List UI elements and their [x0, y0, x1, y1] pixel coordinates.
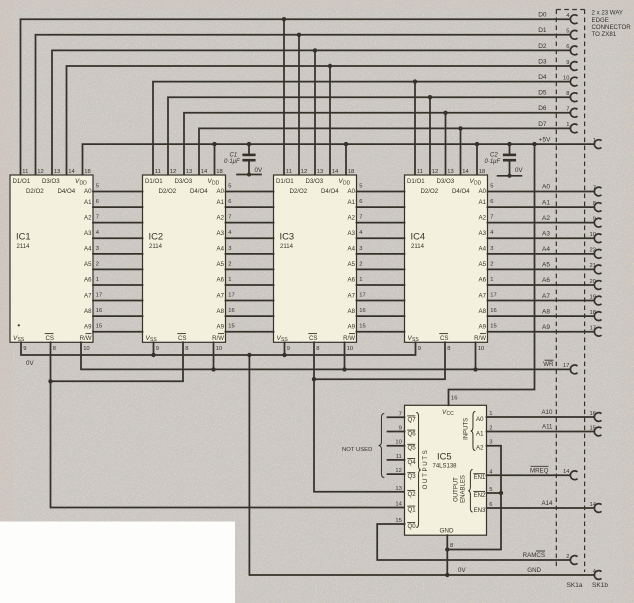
svg-text:A1: A1	[84, 199, 92, 206]
svg-text:17: 17	[228, 293, 234, 299]
svg-text:Q4: Q4	[408, 459, 417, 466]
svg-text:6: 6	[490, 199, 493, 205]
svg-text:SK1a: SK1a	[567, 582, 583, 589]
svg-text:A4: A4	[217, 246, 225, 253]
svg-text:2114: 2114	[280, 244, 294, 250]
svg-text:7: 7	[399, 411, 402, 417]
IC4 top pin numbers 11 12 13 14 18	[417, 169, 485, 175]
svg-text:6: 6	[228, 199, 231, 205]
wire D2 bus	[52, 48, 570, 175]
svg-text:6: 6	[359, 199, 362, 205]
svg-text:A3: A3	[217, 230, 225, 237]
svg-text:14: 14	[395, 502, 402, 508]
svg-text:A0: A0	[542, 184, 550, 191]
svg-text:A1: A1	[217, 199, 225, 206]
svg-text:11: 11	[396, 454, 402, 460]
svg-text:13: 13	[186, 169, 192, 175]
connector SK1b pin 17 A9	[590, 326, 602, 337]
svg-text:D1/O1: D1/O1	[145, 178, 163, 185]
svg-text:DD: DD	[474, 181, 482, 187]
svg-text:3: 3	[359, 246, 362, 252]
svg-text:D5: D5	[538, 90, 547, 97]
svg-text:CONNECTOR: CONNECTOR	[592, 24, 632, 31]
svg-text:9: 9	[23, 346, 26, 352]
svg-text:A2: A2	[479, 214, 487, 221]
connector SK1b pin 9 A2	[593, 216, 602, 227]
svg-text:D1: D1	[538, 27, 547, 34]
svg-text:9: 9	[566, 60, 569, 66]
svg-text:CS: CS	[178, 335, 186, 342]
svg-text:A6: A6	[479, 277, 487, 284]
svg-text:D2/O2: D2/O2	[26, 188, 44, 195]
svg-text:A4: A4	[542, 246, 550, 253]
IC2 address pin numbers 5 6 7 4 3 2 1 17 16 15	[228, 184, 234, 330]
svg-text:A2: A2	[84, 214, 92, 221]
connector SK1a pin 10 D4	[563, 75, 577, 86]
connector SK1a pin 2 RAMCS	[566, 554, 577, 565]
wire D7 bus	[199, 126, 570, 175]
svg-text:A9: A9	[84, 323, 92, 330]
svg-text:A8: A8	[542, 308, 550, 315]
wire EN1 to MREQ	[487, 474, 571, 476]
wire D1 bus	[36, 33, 571, 175]
svg-text:16: 16	[228, 308, 234, 314]
svg-text:18: 18	[479, 169, 485, 175]
svg-text:DD: DD	[80, 181, 88, 187]
svg-text:12: 12	[395, 468, 401, 474]
svg-text:A5: A5	[479, 261, 487, 268]
svg-text:8: 8	[450, 543, 453, 549]
svg-text:14: 14	[332, 169, 339, 175]
svg-text:D4/O4: D4/O4	[452, 188, 470, 195]
wire address bus A0-A9 segment 2	[226, 192, 274, 332]
IC3 bottom pin numbers 9 8 10	[287, 346, 353, 352]
svg-text:A0: A0	[217, 188, 225, 195]
connector SK1b pin 14 A14	[590, 502, 602, 513]
svg-text:D3: D3	[538, 58, 547, 65]
svg-text:15: 15	[395, 518, 401, 524]
wire 0V drop to bottom rail	[249, 355, 594, 577]
svg-text:7: 7	[490, 215, 493, 221]
svg-text:17: 17	[96, 293, 102, 299]
decoder IC5 74LS138	[405, 405, 487, 535]
svg-text:16: 16	[451, 395, 457, 401]
svg-text:IC3: IC3	[280, 231, 295, 242]
svg-text:A5: A5	[84, 261, 92, 268]
svg-text:5: 5	[566, 29, 569, 35]
svg-text:2: 2	[490, 261, 493, 267]
svg-text:18: 18	[84, 169, 90, 175]
svg-text:1: 1	[566, 122, 569, 128]
svg-text:15: 15	[359, 324, 365, 330]
RAM chip IC4 2114	[405, 175, 488, 343]
wire IC5 GND pin 8 to 0V	[446, 535, 448, 575]
svg-text:6: 6	[566, 44, 569, 50]
svg-text:D3/O3: D3/O3	[42, 178, 60, 185]
svg-text:11: 11	[155, 169, 161, 175]
svg-text:D4: D4	[538, 74, 547, 81]
svg-text:15: 15	[590, 425, 596, 431]
svg-text:8: 8	[316, 346, 319, 352]
wire D4 bus	[153, 79, 570, 175]
svg-text:16: 16	[490, 308, 496, 314]
svg-text:RAMCS: RAMCS	[523, 552, 545, 559]
svg-text:D4/O4: D4/O4	[321, 188, 339, 195]
svg-text:DD: DD	[343, 181, 351, 187]
wire address bus A0-A9 segment 3	[357, 192, 405, 332]
svg-text:10: 10	[347, 346, 353, 352]
svg-text:9: 9	[593, 216, 596, 222]
wire D3 bus	[67, 64, 571, 175]
svg-text:8: 8	[566, 91, 569, 97]
svg-text:D2/O2: D2/O2	[159, 188, 177, 195]
svg-text:7: 7	[566, 107, 569, 113]
svg-text:15: 15	[96, 324, 102, 330]
svg-text:A4: A4	[348, 246, 356, 253]
svg-text:Q1: Q1	[408, 507, 417, 514]
svg-text:A3: A3	[479, 230, 487, 237]
IC5 left pin numbers 7 9 10 11 12 13 14 15	[395, 411, 402, 524]
connector SK1b pin 22 A4	[590, 248, 602, 259]
connector SK1a pin 5 D1	[566, 29, 577, 40]
svg-text:EN1: EN1	[474, 474, 486, 481]
svg-text:IC2: IC2	[149, 231, 164, 242]
svg-text:INPUTS: INPUTS	[464, 418, 470, 440]
connector SK1a pin 1 D7	[566, 122, 577, 133]
svg-text:22: 22	[590, 248, 596, 254]
svg-text:A0: A0	[476, 416, 484, 423]
svg-text:A8: A8	[217, 308, 225, 315]
svg-text:8: 8	[185, 346, 188, 352]
svg-text:NOT USED: NOT USED	[342, 447, 372, 453]
svg-text:6: 6	[489, 502, 492, 508]
svg-text:3: 3	[490, 246, 493, 252]
svg-text:17: 17	[359, 293, 365, 299]
svg-text:D7: D7	[538, 121, 547, 128]
connector SK1b pin 16 A10	[590, 411, 602, 422]
svg-text:5: 5	[489, 487, 492, 493]
svg-text:A1: A1	[348, 199, 356, 206]
wire D6 bus	[184, 111, 570, 175]
svg-text:8: 8	[53, 346, 56, 352]
connector SK1b pin 1 +5V	[593, 138, 602, 149]
svg-text:A2: A2	[542, 215, 550, 222]
svg-text:A3: A3	[84, 230, 92, 237]
svg-text:A1: A1	[479, 199, 487, 206]
svg-text:D3/O3: D3/O3	[306, 178, 324, 185]
svg-text:A5: A5	[542, 262, 550, 269]
svg-text:9: 9	[418, 346, 421, 352]
svg-text:2: 2	[228, 261, 231, 267]
svg-text:D1/O1: D1/O1	[276, 178, 294, 185]
svg-text:12: 12	[170, 169, 176, 175]
connector SK1a pin 14 MREQ	[563, 469, 577, 480]
connector SK1b pin 19 A7	[590, 294, 602, 305]
IC2 bottom pin numbers 9 8 10	[156, 346, 222, 352]
RAM chip IC1 2114	[10, 175, 93, 343]
svg-text:SK1b: SK1b	[592, 582, 608, 589]
svg-text:A9: A9	[217, 323, 225, 330]
edge connector dashed outline SK1a	[556, 10, 584, 573]
svg-text:0V: 0V	[458, 567, 466, 574]
svg-text:A9: A9	[542, 324, 550, 331]
svg-text:14: 14	[563, 469, 570, 475]
svg-text:A7: A7	[479, 292, 487, 299]
svg-text:2114: 2114	[17, 244, 31, 250]
svg-text:8: 8	[447, 346, 450, 352]
node +5V rail	[83, 142, 595, 175]
svg-text:A7: A7	[84, 292, 92, 299]
svg-text:EN3: EN3	[474, 507, 486, 514]
connector SK1b pin 21 A5	[590, 263, 602, 274]
svg-text:12: 12	[301, 169, 307, 175]
svg-text:13: 13	[317, 169, 323, 175]
capacitor C2 0.1uF	[485, 144, 524, 178]
svg-text:1: 1	[359, 277, 362, 283]
wire IC5 A0 input to A10	[487, 416, 595, 418]
svg-text:17: 17	[490, 293, 496, 299]
svg-text:0V: 0V	[255, 167, 263, 174]
svg-text:1: 1	[228, 277, 231, 283]
svg-text:2114: 2114	[149, 244, 163, 250]
svg-text:D1/O1: D1/O1	[13, 178, 31, 185]
wire CS net IC1+IC2 to decoder Q1	[48, 342, 404, 507]
node 0V rail under RAMs	[21, 342, 416, 357]
svg-text:20: 20	[590, 279, 596, 285]
NOT USED label and brace	[342, 414, 384, 478]
wire IC5 A1 input to A11	[487, 431, 595, 433]
svg-text:11: 11	[286, 169, 292, 175]
svg-text:1: 1	[490, 277, 493, 283]
svg-text:9: 9	[287, 346, 290, 352]
svg-text:A0: A0	[479, 188, 487, 195]
svg-text:2: 2	[566, 554, 569, 560]
svg-text:15: 15	[228, 324, 234, 330]
svg-text:12: 12	[37, 169, 43, 175]
svg-text:5: 5	[359, 184, 362, 190]
wire VCC feed from +5V to IC5 pin 16	[449, 144, 535, 405]
svg-text:A0: A0	[84, 188, 92, 195]
capacitor C1 0.1uF	[224, 144, 263, 176]
svg-text:14: 14	[462, 169, 469, 175]
svg-text:13: 13	[447, 169, 453, 175]
svg-text:19: 19	[590, 294, 596, 300]
connector SK1a pin 4 D0	[566, 13, 577, 24]
artifact dot inside IC1	[18, 324, 20, 326]
IC3 address pin numbers 5 6 7 4 3 2 1 17 16 15	[359, 184, 365, 330]
svg-text:D6: D6	[538, 105, 547, 112]
svg-text:A9: A9	[479, 323, 487, 330]
svg-text:Q2: Q2	[408, 491, 417, 498]
connector SK1a pin 8 D5	[566, 91, 577, 102]
svg-text:3: 3	[96, 246, 99, 252]
svg-text:1: 1	[96, 277, 99, 283]
svg-text:D2/O2: D2/O2	[290, 188, 308, 195]
svg-text:Q3: Q3	[408, 473, 417, 480]
wire address bus A0-A9 to edge connector	[488, 192, 595, 332]
connector SK1b pin 7 A0	[593, 185, 602, 196]
svg-text:+5V: +5V	[539, 136, 551, 143]
svg-text:OUTPUT: OUTPUT	[454, 477, 460, 502]
svg-text:0V: 0V	[515, 167, 523, 174]
svg-text:5: 5	[490, 184, 493, 190]
svg-text:13: 13	[395, 486, 401, 492]
svg-text:10: 10	[563, 75, 569, 81]
svg-text:1: 1	[593, 138, 596, 144]
IC2 top pin numbers 11 12 13 14 18	[155, 169, 223, 175]
connector SK1a pin 17 WR	[563, 363, 577, 374]
svg-text:Q0: Q0	[408, 523, 417, 530]
svg-text:10: 10	[395, 440, 401, 446]
svg-text:3: 3	[489, 440, 492, 446]
svg-text:MREQ: MREQ	[530, 467, 549, 474]
connector SK1a pin 7 D6	[566, 107, 577, 118]
svg-text:D1/O1: D1/O1	[407, 178, 425, 185]
svg-text:A7: A7	[217, 292, 225, 299]
connector SK1b pin 8 A1	[593, 201, 602, 212]
svg-text:IC5: IC5	[437, 451, 452, 462]
wire D0 bus	[21, 17, 571, 175]
MREQ net label	[530, 466, 549, 474]
svg-text:7: 7	[96, 215, 99, 221]
svg-text:R/W: R/W	[212, 335, 224, 342]
svg-text:A8: A8	[479, 308, 487, 315]
IC1 address pin numbers 5 6 7 4 3 2 1 17 16 15	[96, 184, 102, 330]
svg-text:A1: A1	[476, 430, 484, 437]
svg-text:TO ZX81: TO ZX81	[592, 31, 617, 38]
svg-text:GND: GND	[440, 527, 454, 534]
svg-text:6: 6	[96, 199, 99, 205]
svg-text:16: 16	[96, 308, 102, 314]
svg-text:Q6: Q6	[408, 431, 417, 438]
wire A2 and EN2 grounded	[445, 446, 503, 552]
svg-text:5: 5	[96, 184, 99, 190]
svg-text:C2: C2	[490, 153, 498, 159]
svg-text:12: 12	[432, 169, 438, 175]
svg-text:2: 2	[489, 426, 492, 432]
svg-text:Q5: Q5	[408, 445, 417, 452]
svg-text:15: 15	[490, 324, 496, 330]
svg-text:WR: WR	[543, 361, 554, 368]
svg-text:3: 3	[228, 246, 231, 252]
wire EN3 to A14	[487, 507, 595, 509]
svg-text:A0: A0	[348, 188, 356, 195]
svg-text:2: 2	[96, 261, 99, 267]
svg-text:CS: CS	[309, 335, 317, 342]
IC4 bottom pin numbers 9 8 10	[418, 346, 484, 352]
IC4 address pin numbers 5 6 7 4 3 2 1 17 16 15	[490, 184, 496, 330]
data net labels D0-D7	[538, 12, 547, 128]
svg-text:A7: A7	[348, 292, 356, 299]
svg-text:A1: A1	[542, 199, 550, 206]
svg-text:0V: 0V	[26, 360, 34, 367]
svg-text:10: 10	[216, 346, 222, 352]
svg-text:8: 8	[593, 201, 596, 207]
wire D5 bus	[168, 95, 570, 175]
svg-text:5: 5	[228, 184, 231, 190]
svg-text:11: 11	[417, 169, 423, 175]
connector SK1a pin 6 D2	[566, 44, 577, 55]
svg-text:CS: CS	[440, 335, 448, 342]
svg-text:74LS138: 74LS138	[433, 463, 458, 469]
svg-text:D3/O3: D3/O3	[437, 178, 455, 185]
svg-text:A6: A6	[217, 277, 225, 284]
svg-text:D0: D0	[538, 12, 547, 19]
svg-text:D2: D2	[538, 43, 547, 50]
svg-text:A14: A14	[541, 500, 553, 507]
svg-text:14: 14	[201, 169, 208, 175]
connector SK1a pin 9 D3	[566, 60, 577, 71]
svg-text:D2/O2: D2/O2	[421, 188, 439, 195]
svg-text:A6: A6	[84, 277, 92, 284]
connector SK1b pin 18 A8	[590, 310, 602, 321]
svg-text:CC: CC	[447, 411, 455, 417]
svg-text:A3: A3	[348, 230, 356, 237]
svg-text:7: 7	[593, 185, 596, 191]
IC5 unused output stubs pins 7 9 10 11 12	[388, 417, 405, 474]
svg-text:0·1μF: 0·1μF	[485, 159, 501, 165]
connector note text	[592, 10, 632, 39]
svg-text:A8: A8	[84, 308, 92, 315]
RAMCS net label	[523, 551, 545, 559]
address net labels A0-A9	[542, 184, 550, 331]
svg-text:10: 10	[478, 346, 484, 352]
scan cut white corner	[0, 522, 235, 603]
svg-text:18: 18	[348, 169, 354, 175]
svg-text:A5: A5	[217, 261, 225, 268]
svg-text:17: 17	[563, 363, 569, 369]
svg-text:10: 10	[590, 232, 596, 238]
wire address bus A0-A9 segment 1	[93, 192, 143, 332]
IC5 right pin numbers 1 2 3 4 5 6	[489, 411, 493, 508]
svg-text:13: 13	[54, 169, 60, 175]
svg-text:OUTPUTS: OUTPUTS	[422, 449, 429, 490]
svg-text:21: 21	[590, 263, 596, 269]
svg-text:A4: A4	[479, 246, 487, 253]
svg-text:A2: A2	[348, 214, 356, 221]
svg-text:A9: A9	[348, 323, 356, 330]
svg-text:R/W: R/W	[80, 335, 92, 342]
svg-text:11: 11	[22, 169, 28, 175]
IC1 bottom pin numbers 9 8 10	[23, 346, 89, 352]
connector SK1b pin 20 A6	[590, 279, 602, 290]
svg-text:17: 17	[590, 326, 596, 332]
svg-text:IC4: IC4	[411, 231, 426, 242]
svg-text:R/W: R/W	[343, 335, 355, 342]
svg-text:A7: A7	[542, 293, 550, 300]
svg-text:0·1μF: 0·1μF	[224, 159, 240, 165]
svg-text:14: 14	[68, 169, 75, 175]
wire CS net IC3+IC4 to decoder Q2	[312, 342, 445, 492]
RAM chip IC2 2114	[143, 175, 226, 343]
svg-text:A10: A10	[541, 409, 553, 416]
IC1 top pin numbers 11 12 13 14 18	[22, 169, 90, 175]
svg-text:DD: DD	[212, 181, 220, 187]
svg-text:2 x 23 WAY: 2 x 23 WAY	[592, 10, 624, 17]
svg-text:A5: A5	[348, 261, 356, 268]
svg-text:2: 2	[359, 261, 362, 267]
IC3 top pin numbers 11 12 13 14 18	[286, 169, 354, 175]
svg-text:A6: A6	[542, 277, 550, 284]
svg-text:7: 7	[228, 215, 231, 221]
connector SK1b pin 10 A3	[590, 232, 602, 243]
WR net label	[543, 360, 554, 368]
svg-text:14: 14	[590, 502, 597, 508]
svg-text:10: 10	[83, 346, 89, 352]
svg-text:D3/O3: D3/O3	[175, 178, 193, 185]
connector SK1b pin 15 A11	[590, 425, 602, 436]
svg-text:A11: A11	[542, 423, 553, 430]
